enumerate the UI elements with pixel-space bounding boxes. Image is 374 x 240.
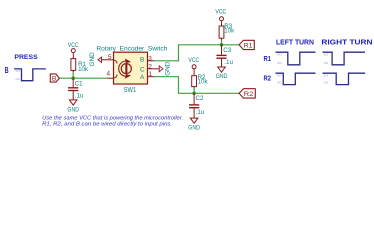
svg-text:GND: GND: [216, 73, 228, 80]
svg-text:LEFT TURN: LEFT TURN: [276, 37, 314, 46]
svg-text:C: C: [140, 66, 145, 73]
svg-text:10k: 10k: [224, 27, 235, 34]
svg-text:B: B: [52, 75, 57, 82]
svg-text:GND: GND: [277, 81, 282, 85]
svg-text:GND: GND: [324, 81, 329, 85]
svg-text:3: 3: [148, 55, 152, 62]
svg-text:.1u: .1u: [196, 109, 205, 116]
svg-text:RIGHT TURN: RIGHT TURN: [321, 37, 372, 46]
svg-text:R1: R1: [244, 42, 253, 49]
svg-text:SW1: SW1: [124, 87, 137, 94]
svg-text:4: 4: [106, 71, 110, 78]
svg-text:3V3: 3V3: [324, 53, 329, 57]
svg-text:VCC: VCC: [215, 8, 226, 15]
svg-text:2: 2: [148, 63, 152, 70]
svg-text:PRESS: PRESS: [14, 54, 38, 61]
svg-text:.1u: .1u: [224, 59, 233, 66]
svg-text:10k: 10k: [78, 66, 89, 73]
svg-text:C3: C3: [223, 47, 231, 54]
svg-text:Rotary_Encoder_Switch: Rotary_Encoder_Switch: [96, 45, 168, 52]
svg-text:3V3: 3V3: [277, 53, 282, 57]
svg-text:1: 1: [149, 71, 153, 78]
svg-text:GND: GND: [277, 61, 282, 65]
svg-text:R2: R2: [264, 76, 272, 83]
svg-text:GND: GND: [15, 77, 20, 81]
svg-text:5: 5: [108, 54, 112, 61]
svg-text:3V3: 3V3: [324, 73, 329, 77]
svg-text:R1, R2, and B can be wired dir: R1, R2, and B can be wired directly to i…: [42, 122, 172, 128]
svg-text:B: B: [5, 66, 9, 75]
svg-text:GND: GND: [188, 125, 200, 132]
svg-text:.1u: .1u: [75, 92, 84, 99]
svg-text:VCC: VCC: [188, 57, 199, 64]
svg-text:B: B: [140, 56, 144, 63]
svg-text:10k: 10k: [198, 79, 209, 86]
svg-text:GND: GND: [324, 61, 329, 65]
svg-text:C2: C2: [196, 95, 204, 102]
svg-text:C1: C1: [75, 80, 83, 87]
svg-text:GND: GND: [164, 61, 171, 76]
svg-text:R1: R1: [264, 56, 272, 63]
svg-text:3V3: 3V3: [277, 73, 282, 77]
svg-text:3V3: 3V3: [15, 69, 20, 73]
svg-text:A: A: [140, 74, 145, 81]
svg-text:VCC: VCC: [68, 42, 79, 49]
svg-text:GND: GND: [89, 52, 96, 67]
svg-text:GND: GND: [67, 107, 79, 114]
svg-text:R2: R2: [244, 91, 254, 98]
